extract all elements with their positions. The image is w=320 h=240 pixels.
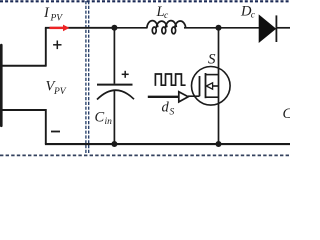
svg-text:c: c xyxy=(251,11,256,21)
gate drive arrowhead (open) xyxy=(179,92,188,102)
wire top rail left segment xyxy=(45,27,115,29)
node junction top of switch branch xyxy=(216,25,222,31)
node junction bottom of switch branch xyxy=(216,141,222,147)
label minus (PV polarity) xyxy=(51,131,60,133)
svg-text:C: C xyxy=(283,106,291,122)
svg-text:d: d xyxy=(162,100,170,116)
node junction bottom of Cin xyxy=(111,141,117,147)
boundary vertical double dashed line xyxy=(86,1,89,154)
svg-text:in: in xyxy=(105,117,113,127)
transistor S body arrowhead xyxy=(206,83,212,89)
wire PV- vertical drop xyxy=(45,109,47,144)
transistor S drain stub xyxy=(206,74,219,76)
wire switch branch vertical (drain-source through circle) xyxy=(218,28,220,144)
wire from Cin node to inductor xyxy=(113,27,148,29)
svg-text:PV: PV xyxy=(50,14,64,24)
inductor Lc coil xyxy=(147,21,186,34)
svg-text:S: S xyxy=(170,108,175,118)
transistor S source stub xyxy=(206,96,219,98)
wire PV+ vertical riser xyxy=(45,28,47,67)
node junction top of Cin xyxy=(111,25,117,31)
diode Dc cathode bar xyxy=(275,15,277,42)
label plus (PV polarity) xyxy=(53,41,61,50)
wire PV- horizontal stub xyxy=(1,109,46,111)
gate drive arrow shaft xyxy=(148,96,179,98)
wire Cin upper lead xyxy=(113,28,115,84)
boundary dashed border bottom xyxy=(0,154,290,156)
wire bottom rail xyxy=(45,143,290,145)
wire top rail middle segment xyxy=(184,27,260,29)
transistor S gate lead xyxy=(188,95,200,97)
transistor S circle body xyxy=(192,67,231,106)
PV source terminal bar xyxy=(0,45,3,126)
transistor S channel bar xyxy=(205,73,207,98)
boundary dashed border top xyxy=(0,0,290,2)
wire Cin lower lead xyxy=(113,90,115,144)
wire top rail right segment xyxy=(276,27,290,29)
svg-text:C: C xyxy=(95,110,105,126)
gate pulse waveform xyxy=(155,74,185,86)
svg-text:c: c xyxy=(164,11,169,21)
diode Dc triangle xyxy=(259,15,275,42)
svg-text:I: I xyxy=(43,5,50,21)
transistor S gate bar xyxy=(199,76,201,96)
svg-text:PV: PV xyxy=(53,87,67,97)
current arrow I_PV (red) xyxy=(50,25,70,32)
capacitor Cin top plate xyxy=(97,84,133,86)
svg-text:S: S xyxy=(208,52,216,68)
wire PV+ horizontal stub xyxy=(1,65,46,67)
transistor S body arrow stub xyxy=(212,85,219,87)
label plus (Cin polarity) xyxy=(122,71,129,78)
capacitor Cin bottom curved plate xyxy=(97,90,134,99)
